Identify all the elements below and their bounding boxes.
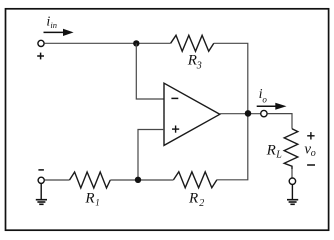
op-amp non-inverting input plus mark — [172, 126, 179, 133]
minus polarity mark above terminal — [38, 169, 44, 171]
wire R2 right end up to output node — [217, 113, 248, 179]
wire op-amp output to output terminal — [220, 113, 261, 115]
svg-text:R: R — [187, 52, 197, 68]
wire ground terminal to R1 — [45, 179, 70, 181]
bottom terminal (open circle, right) — [289, 178, 295, 184]
label R1 — [84, 190, 99, 207]
svg-text:L: L — [275, 149, 282, 160]
op-amp U1 — [164, 83, 220, 145]
svg-text:o: o — [262, 94, 267, 104]
svg-text:in: in — [50, 20, 57, 30]
wire op-amp non-inverting input to node B — [138, 130, 164, 181]
wire R_L to bottom terminal — [291, 169, 293, 177]
ground symbol (right) — [287, 200, 298, 205]
resistor R_L — [284, 129, 298, 170]
wire R3 right end down to output node — [214, 43, 248, 113]
svg-text:o: o — [311, 148, 316, 159]
output terminal (open circle) — [261, 110, 267, 116]
current label i_in — [46, 14, 57, 30]
minus polarity mark for v_o — [307, 164, 315, 166]
label v_o — [304, 141, 315, 159]
wire node A down to op-amp inverting input — [136, 43, 164, 99]
svg-text:1: 1 — [95, 197, 100, 207]
output node junction dot — [245, 110, 252, 117]
resistor R2 — [174, 172, 217, 188]
current arrow i_o — [257, 103, 287, 110]
svg-text:3: 3 — [196, 61, 202, 72]
input terminal (open circle, top left) — [38, 40, 44, 46]
ground symbol (left) — [36, 200, 47, 205]
node A junction dot — [133, 40, 139, 46]
wire R1 to node B — [110, 179, 173, 181]
op-amp inverting input minus mark — [171, 97, 178, 99]
wire output terminal to R_L — [267, 114, 292, 129]
label R3 — [187, 52, 202, 71]
svg-text:R: R — [188, 190, 198, 206]
current arrow i_in — [44, 29, 74, 36]
label R2 — [188, 190, 204, 209]
wire terminal down to ground (right) — [291, 185, 293, 200]
svg-text:R: R — [266, 143, 276, 159]
plus polarity mark below input terminal — [37, 53, 44, 60]
node B junction dot — [135, 177, 141, 183]
plus polarity mark for v_o — [307, 132, 314, 139]
svg-text:2: 2 — [199, 198, 204, 209]
resistor R3 — [171, 35, 214, 51]
resistor R1 — [70, 172, 111, 188]
wire terminal down to ground — [40, 184, 42, 200]
ground terminal (open circle, bottom left) — [38, 177, 44, 183]
current label i_o — [259, 87, 268, 105]
wire input terminal to node A — [44, 42, 170, 44]
svg-text:R: R — [84, 190, 94, 206]
label R_L — [266, 143, 283, 161]
